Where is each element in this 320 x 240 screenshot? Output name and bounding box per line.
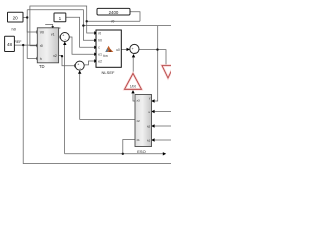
constant REF bbox=[5, 36, 23, 51]
junction dots bbox=[22, 16, 159, 155]
wire REF out bbox=[14, 44, 36, 46]
svg-text:1: 1 bbox=[59, 16, 62, 21]
wire e2 sum2 to NLSEF bbox=[84, 61, 95, 65]
wire z2 up to sum2 bbox=[79, 72, 81, 120]
wire h0 top line bbox=[27, 10, 94, 41]
svg-text:fcn: fcn bbox=[103, 54, 107, 58]
arrowheads bbox=[37, 26, 167, 155]
svg-text:v1: v1 bbox=[51, 32, 55, 36]
svg-text:r0: r0 bbox=[40, 44, 43, 48]
wire v1 to sum1 bbox=[59, 36, 61, 38]
svg-text:z1: z1 bbox=[137, 138, 141, 142]
wire REF drop + bottom rail bbox=[23, 45, 171, 163]
svg-text:REF: REF bbox=[14, 40, 22, 44]
svg-text:z2: z2 bbox=[137, 119, 141, 123]
wire u drop to ESO bbox=[153, 26, 158, 102]
wire z1 rail bbox=[65, 140, 135, 154]
subsystem ESO (flipped) bbox=[135, 95, 152, 155]
wire ESO in h1 bbox=[153, 139, 171, 141]
wire v0 feed bbox=[27, 10, 37, 32]
svg-text:z3: z3 bbox=[137, 99, 141, 103]
svg-text:ESO: ESO bbox=[137, 149, 145, 154]
gain b0 (cut at edge) bbox=[162, 66, 174, 79]
wire z1 up to sum1 bbox=[64, 43, 66, 154]
wire TD trigger mark bbox=[45, 25, 53, 28]
svg-text:1/b0: 1/b0 bbox=[130, 84, 136, 88]
wire h feed bbox=[27, 18, 37, 59]
svg-text:v2: v2 bbox=[53, 54, 57, 58]
svg-text:u0: u0 bbox=[116, 48, 120, 52]
wire ESO in y bbox=[153, 111, 171, 113]
matlab logo bbox=[105, 46, 113, 52]
wire r0 rail bbox=[87, 20, 140, 22]
NLSEF fcn block bbox=[96, 30, 121, 75]
svg-text:e2: e2 bbox=[98, 59, 102, 63]
svg-text:NLSEF: NLSEF bbox=[102, 70, 115, 75]
constant r0 bbox=[97, 8, 130, 23]
svg-text:h2: h2 bbox=[147, 125, 151, 129]
wire c bbox=[66, 17, 95, 47]
sum3 bbox=[130, 44, 139, 54]
svg-text:h0: h0 bbox=[98, 39, 102, 43]
svg-text:48: 48 bbox=[7, 42, 13, 47]
wire u0 to sum3 bbox=[121, 48, 129, 50]
wire z1 rail right arrow seg bbox=[123, 153, 164, 155]
constant c bbox=[54, 13, 66, 30]
wire h0 rail bbox=[83, 25, 171, 27]
wire h0 out bbox=[23, 17, 27, 19]
wire e1 sum1 to NLSEF bbox=[69, 37, 94, 54]
svg-text:r0: r0 bbox=[98, 31, 101, 35]
svg-text:TD: TD bbox=[39, 64, 45, 69]
svg-text:h0: h0 bbox=[11, 26, 16, 31]
wire r0 const drop bbox=[130, 12, 140, 22]
svg-text:V0: V0 bbox=[40, 31, 44, 35]
svg-text:h: h bbox=[40, 57, 42, 61]
svg-text:h1: h1 bbox=[147, 139, 151, 143]
wire u sum3 out bbox=[139, 50, 166, 66]
wire z3 to gain bbox=[133, 92, 135, 101]
svg-text:e1: e1 bbox=[98, 53, 102, 57]
svg-text:r0: r0 bbox=[111, 19, 114, 23]
wire gain out to sum3 bbox=[132, 56, 134, 73]
wire r0 top line bbox=[30, 6, 95, 46]
subsystem TD bbox=[37, 28, 58, 69]
wire ESO in h2 bbox=[153, 125, 171, 127]
sum1 bbox=[60, 33, 69, 43]
gain 1/b0 bbox=[125, 73, 142, 89]
svg-text:2400: 2400 bbox=[109, 10, 119, 15]
sum2 bbox=[75, 61, 84, 71]
wire v2 to sum2 bbox=[59, 55, 75, 65]
svg-text:20: 20 bbox=[13, 15, 19, 20]
wire z2 rail bbox=[80, 119, 135, 121]
constant h0 bbox=[8, 12, 24, 31]
